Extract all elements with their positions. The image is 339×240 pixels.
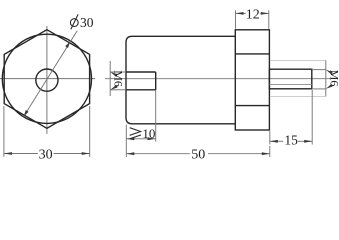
arrow 30 dim right	[82, 152, 90, 155]
thread hole bottom line	[126, 89, 156, 91]
thread minor line on stud	[269, 84, 311, 86]
dimension line 12 left segment	[236, 12, 246, 14]
threaded stud outline	[269, 69, 311, 89]
arrow geq10 left	[126, 137, 134, 140]
svg-text:12: 12	[246, 8, 260, 23]
arrow geq10 right	[148, 137, 156, 140]
M6 left dimension line	[109, 61, 111, 96]
extension line from hole end down	[155, 90, 157, 142]
dimension line 15 left segment	[270, 140, 283, 142]
dimension line 50 right segment	[208, 153, 270, 155]
extension line 15 dim left	[269, 131, 271, 145]
arrow 12 right	[261, 12, 269, 15]
arrow on D30 leader upper	[65, 41, 70, 48]
svg-text:50: 50	[191, 147, 205, 162]
leader line for D30	[24, 31, 78, 117]
M6 left arrow top	[110, 72, 117, 77]
svg-text:M6: M6	[328, 70, 339, 87]
arrow 30 dim left	[4, 152, 12, 155]
M6 right arrow bottom	[326, 84, 333, 89]
arrow 12 left	[236, 12, 244, 15]
thread hole end line	[155, 72, 157, 90]
dimension line 15 right segment	[298, 140, 312, 142]
circle D30 (cylinder silhouette tangent to hex flats)	[2, 34, 91, 123]
M6 left witness bottom	[110, 89, 126, 91]
M6 right arrow top	[326, 70, 333, 75]
svg-text:15: 15	[284, 133, 298, 148]
dimension line 30 right segment	[54, 153, 90, 155]
node front-view vertical centerline	[46, 26, 48, 134]
M6 right witness bottom	[312, 88, 326, 90]
part axis centerline (side view)	[105, 78, 331, 80]
extension line left of 30 dim	[3, 106, 5, 157]
dimension line 30 left segment	[4, 153, 38, 155]
svg-text:30: 30	[80, 15, 94, 30]
thread hole top line	[126, 71, 156, 73]
extension line 50 dim right	[269, 146, 271, 157]
dimension line geq10	[126, 138, 155, 140]
arrow 50 left	[126, 152, 134, 155]
M6 left arrow bottom	[110, 85, 117, 90]
arrow 50 right	[262, 152, 270, 155]
extension line 15 dim right	[311, 90, 313, 145]
M6 right dimension line	[325, 60, 327, 96]
text geq10	[130, 128, 141, 139]
hex facet line upper	[235, 53, 269, 55]
node front-view horizontal centerline	[0, 78, 95, 80]
hex section side view outline	[235, 30, 269, 130]
svg-text:30: 30	[39, 147, 53, 162]
arrow 15 right	[304, 140, 312, 143]
dimension line 12 right segment	[260, 12, 269, 14]
extension line 50 dim left	[125, 125, 127, 158]
M6 right faint frame bottom	[270, 95, 326, 97]
hole circle (threaded hole front view)	[36, 69, 58, 91]
dimension line 50 left segment	[126, 153, 190, 155]
hexagon outline (front view of hex section)	[4, 30, 89, 129]
M6 right faint frame top	[270, 59, 326, 61]
extension line 12 dim left	[235, 10, 237, 29]
svg-text:M6: M6	[112, 70, 126, 87]
extension line 12 dim right	[268, 10, 270, 29]
arrow 15 left	[270, 140, 278, 143]
arrow on D30 leader lower	[24, 110, 29, 117]
extension line right of 30 dim	[89, 106, 91, 157]
hex facet line lower	[235, 105, 269, 107]
diameter symbol of D30 label	[70, 14, 78, 29]
M6 right witness top	[312, 69, 326, 71]
svg-text:10: 10	[142, 126, 155, 141]
body outline (cylindrical body side view, rounded left corners)	[126, 36, 235, 124]
M6 left witness top	[110, 71, 126, 73]
